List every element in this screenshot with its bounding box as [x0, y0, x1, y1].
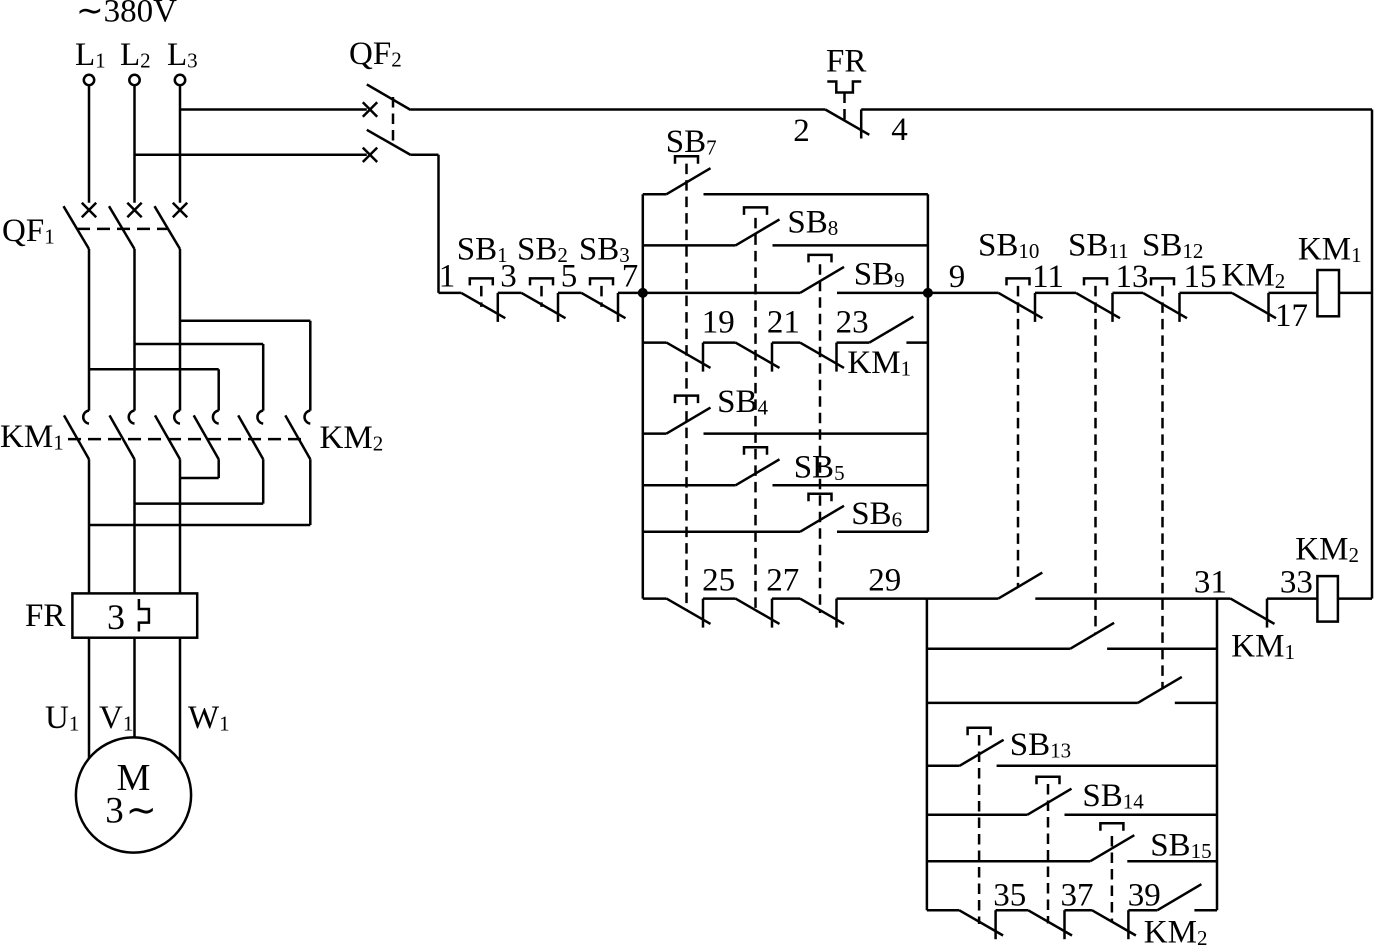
svg-text:33: 33	[1280, 565, 1313, 601]
svg-text:23: 23	[836, 305, 869, 341]
svg-text:9: 9	[949, 259, 966, 295]
svg-text:37: 37	[1061, 878, 1094, 914]
svg-text:19: 19	[702, 305, 735, 341]
svg-text:3: 3	[500, 259, 517, 295]
svg-text:4: 4	[891, 112, 908, 148]
svg-text:35: 35	[993, 878, 1026, 914]
svg-text:1: 1	[439, 259, 456, 295]
svg-text:27: 27	[766, 563, 799, 599]
svg-text:17: 17	[1275, 298, 1308, 334]
svg-text:7: 7	[622, 259, 639, 295]
svg-text:11: 11	[1032, 259, 1064, 295]
svg-text:3∼: 3∼	[105, 791, 159, 832]
svg-text:FR: FR	[25, 598, 65, 634]
svg-text:13: 13	[1116, 259, 1149, 295]
svg-text:3: 3	[107, 597, 125, 637]
svg-text:29: 29	[868, 563, 901, 599]
svg-text:15: 15	[1184, 259, 1217, 295]
svg-text:5: 5	[561, 259, 578, 295]
svg-text:2: 2	[793, 113, 810, 149]
svg-text:∼380V: ∼380V	[76, 0, 177, 30]
svg-text:39: 39	[1128, 878, 1161, 914]
svg-text:FR: FR	[826, 44, 866, 80]
svg-text:31: 31	[1194, 565, 1227, 601]
svg-text:21: 21	[767, 305, 800, 341]
svg-text:25: 25	[702, 563, 735, 599]
